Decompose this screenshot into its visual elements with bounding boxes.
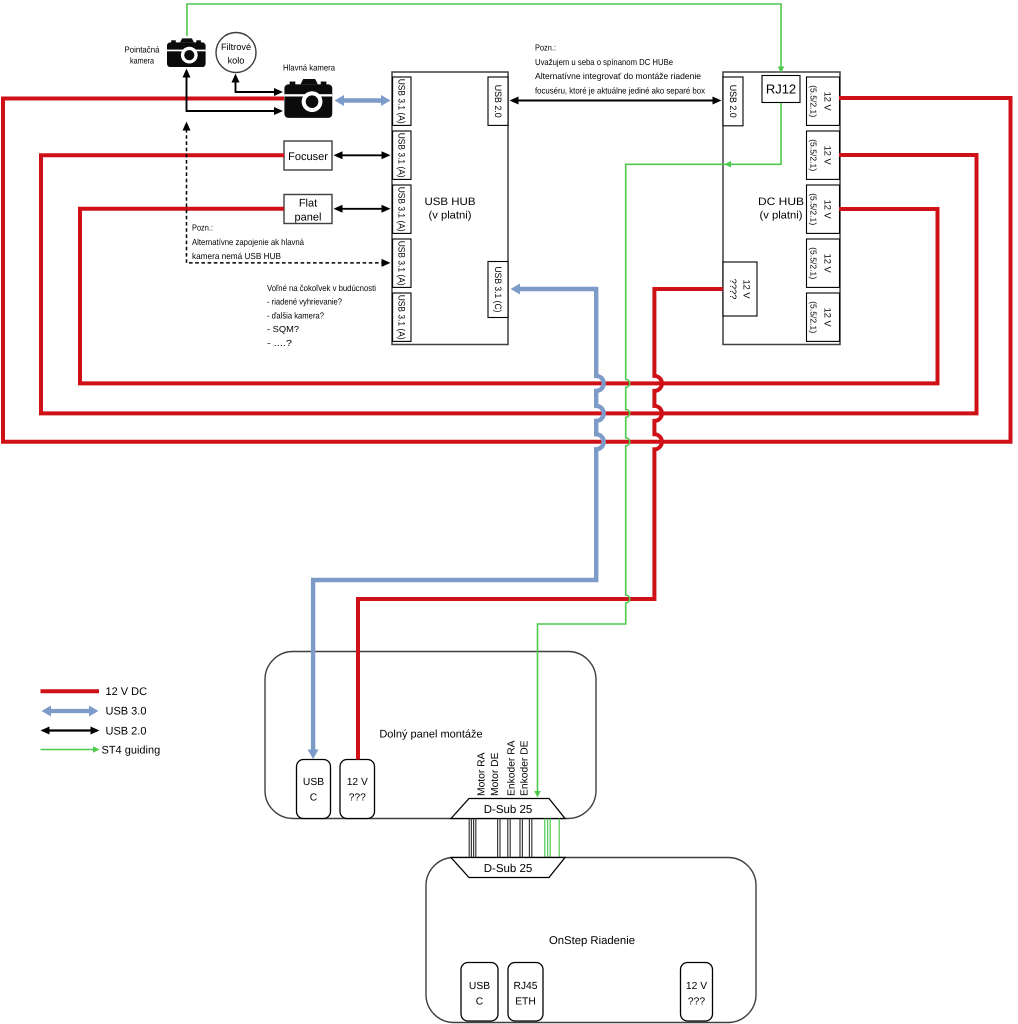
svg-text:(5.5/2.1): (5.5/2.1) [809,301,819,333]
svg-text:USB 2.0: USB 2.0 [728,85,738,118]
svg-text:Alternatívne integrovať do mon: Alternatívne integrovať do montáže riade… [535,71,701,81]
svg-text:Motor RA: Motor RA [477,752,488,796]
svg-text:panel: panel [295,212,322,224]
svg-text:Pozn.:: Pozn.: [535,43,556,53]
svg-text:ST4 guiding: ST4 guiding [102,744,161,756]
svg-text:USB: USB [469,981,490,992]
svg-text:C: C [310,792,318,803]
connector: D-Sub 25 (OnStep) [451,858,565,878]
wire bundle: motor/encoder lines between D-Sub connectors [469,819,532,858]
svg-text:????: ???? [728,279,738,300]
svg-text:USB 3.1 (C): USB 3.1 (C) [493,267,503,313]
svg-text:12 V: 12 V [823,308,833,328]
svg-text:Motor DE: Motor DE [490,752,501,796]
camera: Pointacna kamera icon [180,38,194,42]
port: USB HUB USB 3.1 (A) #4 [393,239,411,287]
port: DC HUB 12 V (5.5/2.1) #3 [807,185,840,233]
svg-text:USB 3.1 (A): USB 3.1 (A) [397,295,407,340]
svg-text:D-Sub 25: D-Sub 25 [484,804,533,816]
svg-text:???: ??? [688,996,705,1007]
svg-text:RJ12: RJ12 [766,82,796,97]
wire: ST4 guiding Pointacna kamera to RJ12 [187,4,781,67]
svg-text:Flat: Flat [299,198,317,210]
svg-text:(5.5/2.1): (5.5/2.1) [809,193,819,225]
port: DC HUB 12 V ???? [723,262,757,316]
wire: 12V DC from DC HUB 12V???? to Dolny panel 12V??? (with hops) [358,289,723,760]
svg-text:Pozn.:: Pozn.: [192,223,213,233]
port: USB HUB USB 3.1 (A) #3 [393,185,411,233]
port: OnStep USB C [461,963,498,1022]
svg-text:USB 3.1 (A): USB 3.1 (A) [397,79,407,124]
svg-text:- ....?: - ....? [267,338,292,348]
port: OnStep 12 V ??? [681,963,713,1022]
port: DC HUB USB 2.0 [723,77,743,126]
svg-text:USB 2.0: USB 2.0 [106,725,147,737]
box: DC HUB (v platni) U2 [723,72,840,345]
filter wheel: Filtrove kolo [216,33,256,73]
svg-text:12 V: 12 V [823,200,833,220]
svg-text:(5.5/2.1): (5.5/2.1) [809,139,819,171]
svg-text:RJ45: RJ45 [513,981,537,992]
port: USB HUB USB 3.1 (C) [488,262,508,318]
wire: USB 2.0 Pointacna kamera to Hlavna kamera [187,73,279,111]
svg-text:C: C [476,996,484,1007]
port: USB HUB USB 3.1 (A) #2 [393,131,411,179]
svg-text:focuséru, ktoré je aktuálne je: focuséru, ktoré je aktuálne jediné ako s… [535,85,706,95]
svg-text:D-Sub 25: D-Sub 25 [484,863,533,875]
wire: USB 2.0 USB HUB to DC HUB [514,100,717,102]
svg-text:12 V: 12 V [823,146,833,166]
port: Dolny panel USB C [297,760,331,819]
svg-text:12 V: 12 V [347,777,368,788]
wire: USB 3.0 Hlavna kamera to USB HUB port 1 [341,98,384,102]
svg-text:12 V DC: 12 V DC [106,686,148,698]
port: OnStep RJ45 ETH [508,963,543,1022]
svg-text:ETH: ETH [515,996,536,1007]
svg-text:Focuser: Focuser [288,151,328,163]
legend: ST4 guiding [41,749,94,751]
legend: USB 3.0 [48,709,92,713]
svg-text:???: ??? [349,792,366,803]
port: DC HUB 12 V (5.5/2.1) #5 [807,293,840,341]
box: OnStep Riadenie [426,858,756,1023]
svg-text:OnStep Riadenie: OnStep Riadenie [549,935,635,947]
camera: Hlavna kamera icon [301,79,318,84]
port: DC HUB 12 V (5.5/2.1) #4 [807,239,840,287]
box: Focuser [284,141,332,170]
legend: 12 V DC [41,689,100,693]
port: USB HUB USB 3.1 (A) #1 [393,77,411,125]
svg-text:Voľné na čokoľvek v budúcnosti: Voľné na čokoľvek v budúcnosti [267,283,376,293]
svg-text:12 V: 12 V [823,254,833,274]
wire: ST4 guiding RJ12 to OnStep D-Sub (with hops) [538,103,782,791]
svg-text:Uvažujem u seba o spínanom DC: Uvažujem u seba o spínanom DC HUBe [535,57,673,67]
connector: D-Sub 25 (Dolny panel) [451,799,565,819]
svg-text:Dolný panel montáže: Dolný panel montáže [379,729,482,741]
svg-text:USB 3.1 (A): USB 3.1 (A) [397,133,407,178]
svg-text:USB 3.0: USB 3.0 [106,706,147,718]
wire: USB 3.0 USB HUB (C) to Dolny panel USB C (with hops) [313,289,604,752]
svg-text:Enkoder DE: Enkoder DE [520,740,531,796]
box: Flat panel [284,195,332,224]
svg-text:kamera: kamera [130,56,154,66]
wire: 12V DC loop 2 (DC HUB port 2 to Focuser) [41,155,977,413]
port: DC HUB RJ12 [762,76,800,103]
svg-text:12 V: 12 V [741,279,751,299]
svg-text:- SQM?: - SQM? [267,324,299,334]
svg-text:kamera nemá USB HUB: kamera nemá USB HUB [192,251,281,261]
port: USB HUB USB 3.1 (A) #5 [393,293,411,341]
svg-text:(v platni): (v platni) [429,209,472,221]
svg-text:Alternatívne zapojenie ak hlav: Alternatívne zapojenie ak hlavná [192,237,304,247]
port: USB HUB USB 2.0 [488,77,508,125]
svg-text:Enkoder RA: Enkoder RA [507,740,518,796]
svg-text:Pointačná: Pointačná [125,45,160,55]
svg-text:(5.5/2.1): (5.5/2.1) [809,247,819,279]
svg-text:USB 3.1 (A): USB 3.1 (A) [397,241,407,286]
wire: USB 2.0 Flat panel to USB HUB port 3 [338,208,386,210]
svg-text:(v platni): (v platni) [760,209,803,221]
port: DC HUB 12 V (5.5/2.1) #2 [807,131,840,179]
svg-text:- riadené vyhrievanie?: - riadené vyhrievanie? [267,297,342,307]
svg-text:Hlavná kamera: Hlavná kamera [283,63,335,73]
wire bundle: ST4 green lines between D-Sub connectors [545,819,559,858]
legend: USB 2.0 [45,729,95,731]
wire: USB 2.0 Filtrove kolo to Hlavna kamera [236,79,279,92]
svg-text:kolo: kolo [228,55,245,65]
box: Dolny panel montaze [265,652,596,819]
svg-text:USB 2.0: USB 2.0 [493,85,503,118]
wire: dashed alternative USB link to USB HUB port 4 [187,129,386,263]
port: DC HUB 12 V (5.5/2.1) #1 [807,77,840,125]
port: Dolny panel 12 V ??? [340,760,375,819]
wire: USB 2.0 Focuser to USB HUB port 2 [338,154,386,156]
svg-text:USB 3.1 (A): USB 3.1 (A) [397,187,407,232]
svg-text:12 V: 12 V [686,981,707,992]
svg-text:12 V: 12 V [823,92,833,112]
svg-text:Filtrové: Filtrové [221,42,251,52]
svg-text:USB: USB [303,777,324,788]
svg-text:(5.5/2.1): (5.5/2.1) [809,85,819,117]
svg-text:- ďalšia kamera?: - ďalšia kamera? [267,310,324,320]
svg-text:USB HUB: USB HUB [425,196,476,208]
svg-text:DC HUB: DC HUB [758,196,804,208]
wire: 12V DC loop 3 (DC HUB port 3 to Flat panel) [80,209,938,384]
wire: 12V DC loop 1 (DC HUB port 1 to Hlavna kamera) [3,98,1011,442]
box: USB HUB (v platni) U1 [392,72,508,345]
